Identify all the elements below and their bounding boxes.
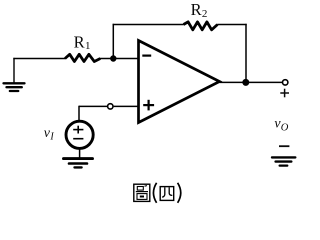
wire vertical down to source vI bbox=[78, 106, 80, 121]
source vI (circle with + and -) bbox=[66, 121, 93, 148]
ground GND3 (output reference) bbox=[272, 157, 295, 165]
label - (output terminal) bbox=[279, 145, 289, 147]
ground GND2 (below source vI) bbox=[64, 148, 93, 167]
label vO bbox=[274, 116, 288, 133]
wire op-amp output to terminal bbox=[220, 81, 283, 83]
wire non-inverting input horizontal bbox=[79, 105, 139, 107]
label R1 bbox=[74, 33, 91, 53]
wire from R1 to op-amp inverting input bbox=[100, 58, 139, 60]
svg-text:I: I bbox=[49, 132, 54, 143]
caption: character 四 bbox=[160, 187, 174, 201]
node A (inverting input junction dot) bbox=[110, 55, 116, 61]
svg-text:2: 2 bbox=[202, 8, 208, 20]
svg-text:R: R bbox=[74, 33, 85, 52]
resistor R2 bbox=[184, 22, 218, 30]
label + (output terminal) bbox=[280, 89, 289, 98]
terminal (open circle on + input wire) bbox=[108, 104, 113, 109]
caption: left parenthesis bbox=[153, 183, 156, 203]
svg-text:R: R bbox=[191, 0, 202, 19]
wire left segment from ground to R1 bbox=[13, 58, 65, 60]
wire right vertical down to output node bbox=[245, 24, 247, 83]
svg-text:1: 1 bbox=[85, 40, 91, 52]
wire top horizontal left of R2 bbox=[113, 24, 184, 26]
wire vertical from node A up to feedback bbox=[112, 24, 114, 59]
svg-text:O: O bbox=[281, 123, 289, 134]
wire top horizontal right of R2 bbox=[217, 24, 247, 26]
ground GND1 (left) bbox=[4, 59, 25, 92]
label R2 bbox=[191, 0, 208, 20]
caption: right parenthesis bbox=[178, 183, 181, 203]
node B (output junction dot) bbox=[242, 79, 249, 86]
terminal (output open circle) bbox=[283, 80, 288, 85]
caption: character 圖 bbox=[134, 184, 150, 201]
resistor R1 bbox=[65, 54, 100, 61]
label vI bbox=[44, 126, 55, 142]
op-amp U1 bbox=[139, 41, 220, 123]
